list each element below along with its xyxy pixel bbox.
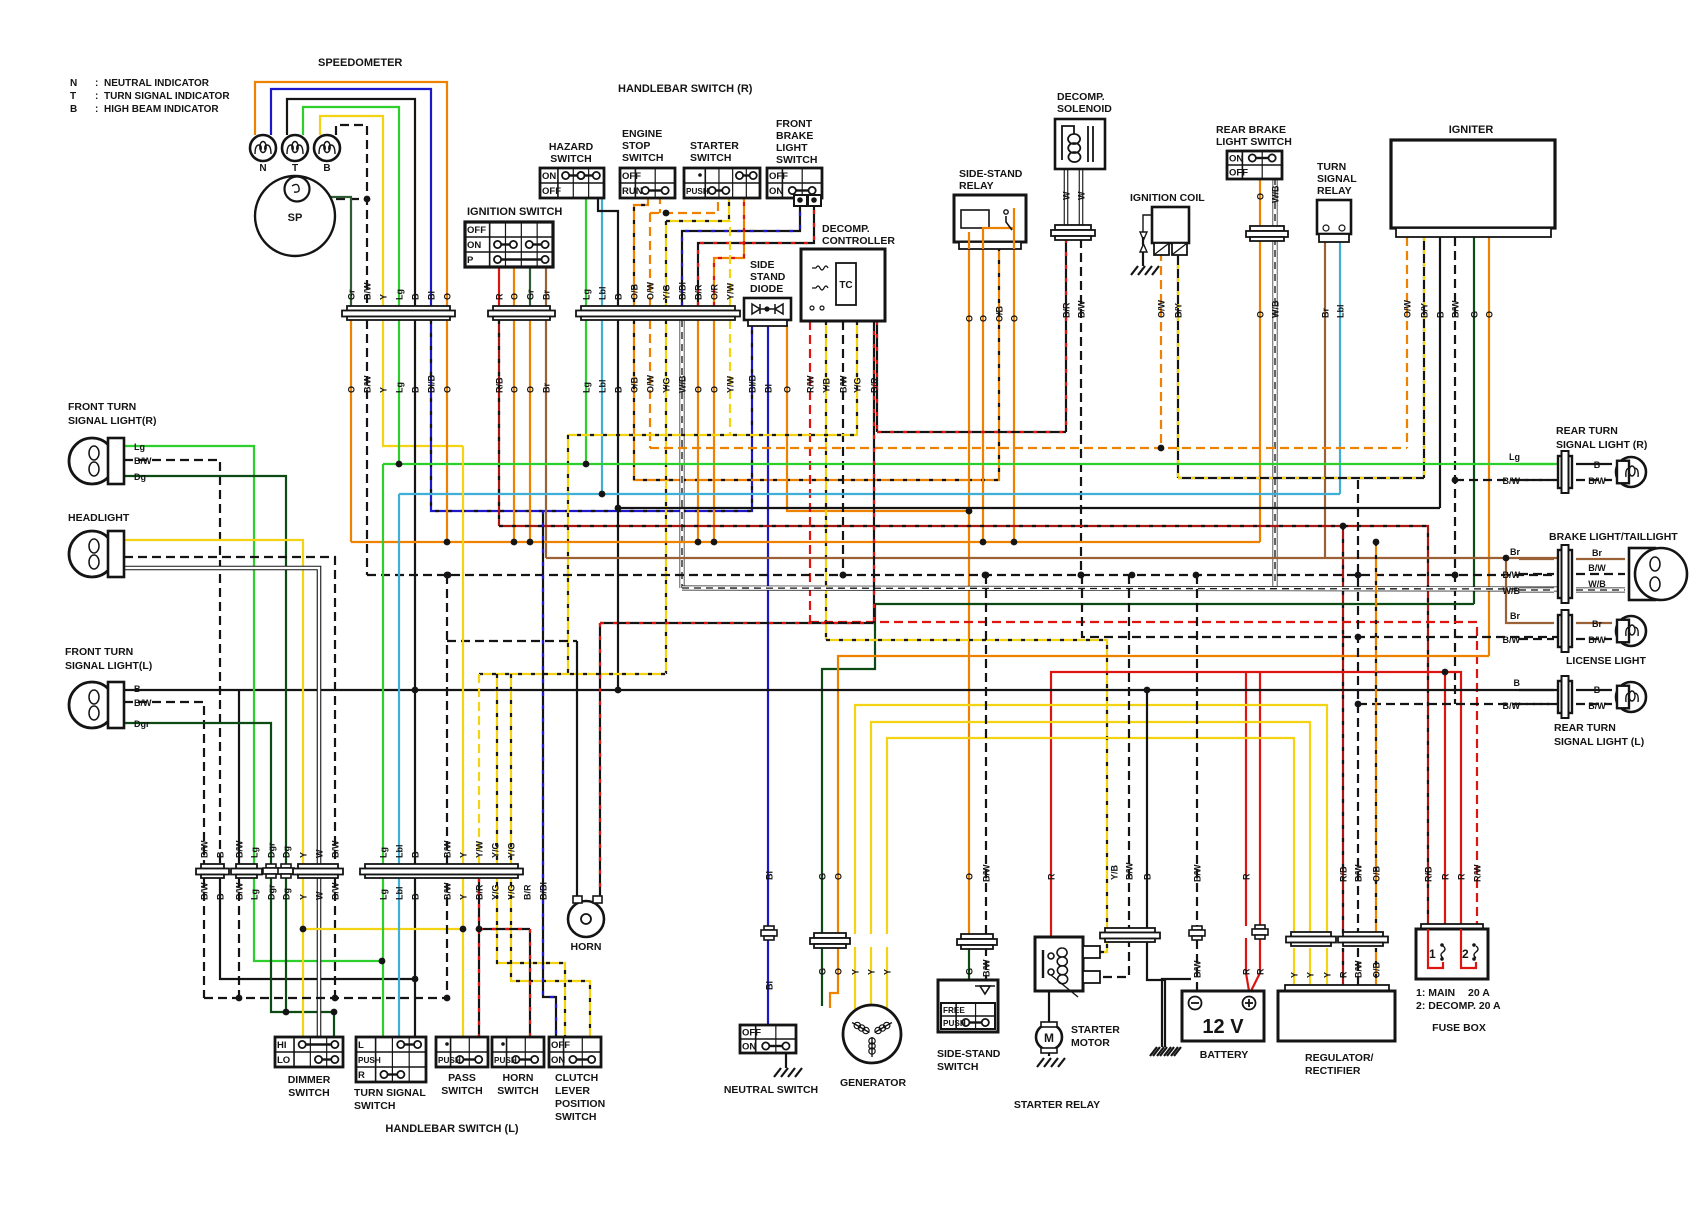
svg-text:ON: ON bbox=[467, 240, 481, 251]
svg-text:LIGHT: LIGHT bbox=[776, 142, 808, 154]
svg-text:HAZARD: HAZARD bbox=[549, 141, 594, 153]
svg-text:B: B bbox=[614, 293, 624, 300]
svg-text:B/W: B/W bbox=[1588, 476, 1606, 486]
svg-text:B/R: B/R bbox=[475, 884, 485, 900]
svg-text:B: B bbox=[1436, 311, 1446, 318]
svg-text:Lg: Lg bbox=[582, 289, 592, 300]
svg-text:O: O bbox=[965, 873, 975, 880]
svg-text:LICENSE LIGHT: LICENSE LIGHT bbox=[1566, 655, 1647, 667]
svg-text:Y/B: Y/B bbox=[822, 377, 832, 393]
svg-text:DIODE: DIODE bbox=[750, 283, 783, 295]
svg-text:SWITCH: SWITCH bbox=[622, 152, 663, 164]
svg-text:Y/G: Y/G bbox=[507, 842, 517, 858]
svg-text:HI: HI bbox=[277, 1040, 287, 1051]
svg-text:O: O bbox=[1256, 193, 1266, 200]
svg-text:FREE: FREE bbox=[943, 1006, 965, 1015]
svg-text:O: O bbox=[834, 873, 844, 880]
svg-text:Bl: Bl bbox=[765, 981, 775, 990]
svg-text:Y: Y bbox=[867, 969, 877, 975]
svg-text:Dg: Dg bbox=[282, 888, 292, 900]
svg-text:Y: Y bbox=[1323, 972, 1333, 978]
svg-text:B: B bbox=[323, 163, 330, 174]
svg-text:B: B bbox=[70, 104, 77, 115]
svg-text:LEVER: LEVER bbox=[555, 1085, 590, 1097]
svg-text:SIGNAL LIGHT (L): SIGNAL LIGHT (L) bbox=[1554, 736, 1644, 748]
svg-text:Lg: Lg bbox=[250, 889, 260, 900]
svg-text:B/Bl: B/Bl bbox=[678, 282, 688, 300]
svg-text:LIGHT SWITCH: LIGHT SWITCH bbox=[1216, 136, 1292, 148]
svg-text:Dg: Dg bbox=[282, 846, 292, 858]
svg-text:GENERATOR: GENERATOR bbox=[840, 1077, 907, 1089]
svg-text::: : bbox=[95, 91, 98, 102]
svg-text:Lg: Lg bbox=[1509, 452, 1520, 462]
svg-text:B/W: B/W bbox=[443, 882, 453, 900]
svg-text:Y/G: Y/G bbox=[853, 377, 863, 393]
svg-text:R/B: R/B bbox=[1424, 866, 1434, 882]
svg-text:B/W: B/W bbox=[839, 375, 849, 393]
svg-text:B/W: B/W bbox=[443, 840, 453, 858]
svg-text:O: O bbox=[979, 315, 989, 322]
svg-text:B/W: B/W bbox=[134, 698, 152, 708]
svg-text:R: R bbox=[358, 1070, 365, 1081]
svg-text:SWITCH: SWITCH bbox=[497, 1085, 538, 1097]
svg-text:W: W bbox=[1077, 191, 1087, 200]
svg-text:PASS: PASS bbox=[448, 1072, 476, 1084]
svg-text:RELAY: RELAY bbox=[1317, 185, 1352, 197]
svg-text:O/B: O/B bbox=[630, 283, 640, 300]
svg-text:FUSE BOX: FUSE BOX bbox=[1432, 1022, 1486, 1034]
svg-text:PUSH: PUSH bbox=[686, 187, 709, 196]
svg-text:O/W: O/W bbox=[1403, 299, 1413, 318]
svg-text:G: G bbox=[818, 873, 828, 880]
svg-text:ON: ON bbox=[551, 1055, 565, 1066]
svg-text:Y/W: Y/W bbox=[475, 840, 485, 858]
svg-text:DECOMP.: DECOMP. bbox=[1057, 91, 1105, 103]
svg-text:B/W: B/W bbox=[1125, 862, 1135, 880]
svg-text:SWITCH: SWITCH bbox=[288, 1087, 329, 1099]
svg-text:B/W: B/W bbox=[1354, 960, 1364, 978]
svg-text:M: M bbox=[1044, 1031, 1054, 1045]
svg-text:NEUTRAL INDICATOR: NEUTRAL INDICATOR bbox=[104, 78, 210, 89]
svg-text:R: R bbox=[1256, 968, 1266, 975]
svg-text:B/W: B/W bbox=[1354, 864, 1364, 882]
svg-text:P: P bbox=[467, 255, 474, 266]
svg-text:B/W: B/W bbox=[134, 456, 152, 466]
svg-text:Lg: Lg bbox=[250, 847, 260, 858]
svg-text:STOP: STOP bbox=[622, 140, 650, 152]
svg-text:R/W: R/W bbox=[806, 375, 816, 393]
svg-text:B/W: B/W bbox=[1503, 476, 1521, 486]
svg-text:O: O bbox=[1256, 311, 1266, 318]
svg-text:SIGNAL LIGHT(R): SIGNAL LIGHT(R) bbox=[68, 415, 156, 427]
svg-text:N: N bbox=[70, 78, 77, 89]
svg-text:TURN SIGNAL INDICATOR: TURN SIGNAL INDICATOR bbox=[104, 91, 230, 102]
svg-text:Y/G: Y/G bbox=[491, 884, 501, 900]
svg-text:IGNITER: IGNITER bbox=[1449, 124, 1494, 136]
svg-text:O: O bbox=[694, 386, 704, 393]
svg-text:B/W: B/W bbox=[235, 840, 245, 858]
svg-text:B/R: B/R bbox=[523, 884, 533, 900]
svg-text:SOLENOID: SOLENOID bbox=[1057, 103, 1112, 115]
svg-text:Br: Br bbox=[1321, 308, 1331, 318]
svg-text:Br: Br bbox=[1510, 611, 1520, 621]
svg-text:B: B bbox=[1594, 685, 1601, 695]
svg-text:B/Bl: B/Bl bbox=[539, 882, 549, 900]
svg-text:OFF: OFF bbox=[742, 1028, 761, 1039]
svg-text:HANDLEBAR SWITCH (L): HANDLEBAR SWITCH (L) bbox=[385, 1123, 519, 1135]
svg-text:1: MAIN: 1: MAIN bbox=[1416, 987, 1455, 999]
svg-text:2: 2 bbox=[1462, 947, 1469, 961]
svg-text:Y: Y bbox=[883, 969, 893, 975]
svg-text:SPEEDOMETER: SPEEDOMETER bbox=[318, 57, 402, 69]
svg-text:HEADLIGHT: HEADLIGHT bbox=[68, 512, 130, 524]
svg-text:R: R bbox=[1047, 873, 1057, 880]
svg-text:G: G bbox=[818, 968, 828, 975]
svg-text:G: G bbox=[1470, 311, 1480, 318]
svg-text:Gr: Gr bbox=[526, 289, 536, 300]
svg-text:B/W: B/W bbox=[331, 840, 341, 858]
svg-text:B/W: B/W bbox=[331, 882, 341, 900]
svg-text:Y: Y bbox=[299, 894, 309, 900]
svg-text:G: G bbox=[965, 968, 975, 975]
svg-text:SIGNAL LIGHT(L): SIGNAL LIGHT(L) bbox=[65, 660, 152, 672]
svg-text:MOTOR: MOTOR bbox=[1071, 1037, 1110, 1049]
svg-text:Y/G: Y/G bbox=[662, 284, 672, 300]
svg-text:Br: Br bbox=[1592, 548, 1602, 558]
svg-text:B: B bbox=[411, 293, 421, 300]
svg-text:OFF: OFF bbox=[542, 186, 561, 197]
svg-text:CLUTCH: CLUTCH bbox=[555, 1072, 598, 1084]
svg-text:O/W: O/W bbox=[646, 374, 656, 393]
svg-text:B/W: B/W bbox=[1193, 864, 1203, 882]
svg-text:O: O bbox=[834, 968, 844, 975]
svg-text:SP: SP bbox=[288, 212, 303, 224]
svg-text:O: O bbox=[347, 386, 357, 393]
svg-text:Y: Y bbox=[1290, 972, 1300, 978]
svg-text:W/B: W/B bbox=[1271, 185, 1281, 203]
svg-text:ON: ON bbox=[742, 1042, 756, 1053]
svg-text:R: R bbox=[1242, 873, 1252, 880]
svg-text:B/W: B/W bbox=[200, 882, 210, 900]
svg-text:HORN: HORN bbox=[571, 941, 602, 953]
svg-text:O: O bbox=[510, 293, 520, 300]
svg-text:Dg: Dg bbox=[134, 472, 146, 482]
svg-text:B/W: B/W bbox=[1503, 570, 1521, 580]
svg-text:TC: TC bbox=[839, 280, 852, 291]
svg-text:W/B: W/B bbox=[1588, 579, 1606, 589]
svg-text:R/B: R/B bbox=[1339, 866, 1349, 882]
svg-text:OFF: OFF bbox=[551, 1040, 570, 1051]
svg-text:SWITCH: SWITCH bbox=[937, 1061, 978, 1073]
svg-text:SIDE-STAND: SIDE-STAND bbox=[937, 1048, 1001, 1060]
svg-text:Lbl: Lbl bbox=[395, 845, 405, 859]
svg-text:O: O bbox=[443, 293, 453, 300]
svg-text:B/W: B/W bbox=[235, 882, 245, 900]
svg-text:REGULATOR/: REGULATOR/ bbox=[1305, 1052, 1374, 1064]
svg-text:B: B bbox=[411, 851, 421, 858]
svg-text:B/R: B/R bbox=[870, 377, 880, 393]
svg-text:B/R: B/R bbox=[694, 284, 704, 300]
svg-text:Lbl: Lbl bbox=[598, 287, 608, 301]
svg-text:O: O bbox=[443, 386, 453, 393]
svg-text:STARTER: STARTER bbox=[1071, 1024, 1120, 1036]
svg-text:T: T bbox=[292, 163, 298, 174]
svg-text:BATTERY: BATTERY bbox=[1200, 1049, 1248, 1061]
svg-text:R/B: R/B bbox=[495, 377, 505, 393]
svg-text:PUSH: PUSH bbox=[358, 1056, 381, 1065]
svg-text:ENGINE: ENGINE bbox=[622, 128, 662, 140]
svg-text:W: W bbox=[315, 891, 325, 900]
svg-text:RECTIFIER: RECTIFIER bbox=[1305, 1065, 1361, 1077]
svg-text:Y: Y bbox=[379, 294, 389, 300]
svg-text:Br: Br bbox=[1592, 619, 1602, 629]
svg-text:O/R: O/R bbox=[710, 283, 720, 300]
svg-text:RELAY: RELAY bbox=[959, 180, 994, 192]
svg-text:Br: Br bbox=[542, 383, 552, 393]
svg-text:Lg: Lg bbox=[395, 382, 405, 393]
svg-text:Bl/B: Bl/B bbox=[427, 374, 437, 393]
svg-text:B/W: B/W bbox=[1451, 300, 1461, 318]
svg-text:B/W: B/W bbox=[982, 864, 992, 882]
svg-text:12 V: 12 V bbox=[1202, 1016, 1244, 1038]
svg-text:W: W bbox=[1062, 191, 1072, 200]
svg-text:B: B bbox=[411, 386, 421, 393]
svg-text:B/R: B/R bbox=[1062, 302, 1072, 318]
svg-text:SWITCH: SWITCH bbox=[441, 1085, 482, 1097]
svg-text:R: R bbox=[1441, 873, 1451, 880]
svg-text:Y: Y bbox=[459, 894, 469, 900]
svg-text:Y/W: Y/W bbox=[726, 282, 736, 300]
svg-text:SWITCH: SWITCH bbox=[555, 1111, 596, 1123]
svg-text:O: O bbox=[510, 386, 520, 393]
svg-text:SIGNAL LIGHT (R): SIGNAL LIGHT (R) bbox=[1556, 439, 1647, 451]
svg-text:ON: ON bbox=[769, 186, 783, 197]
svg-text:Y/B: Y/B bbox=[1110, 864, 1120, 880]
svg-text:B/W: B/W bbox=[1588, 563, 1606, 573]
svg-text:BRAKE LIGHT/TAILLIGHT: BRAKE LIGHT/TAILLIGHT bbox=[1549, 531, 1678, 543]
svg-text:O/W: O/W bbox=[646, 281, 656, 300]
svg-text:STARTER: STARTER bbox=[690, 140, 739, 152]
svg-text:B/W: B/W bbox=[1588, 635, 1606, 645]
svg-text:R: R bbox=[1242, 968, 1252, 975]
svg-text:2: DECOMP. 20 A: 2: DECOMP. 20 A bbox=[1416, 1000, 1501, 1012]
svg-text:IGNITION COIL: IGNITION COIL bbox=[1130, 192, 1205, 204]
svg-text:Lbl: Lbl bbox=[1336, 305, 1346, 319]
svg-text:CONTROLLER: CONTROLLER bbox=[822, 235, 895, 247]
svg-text:DIMMER: DIMMER bbox=[288, 1074, 331, 1086]
svg-text:W/B: W/B bbox=[1503, 586, 1521, 596]
svg-text:Lbl: Lbl bbox=[598, 380, 608, 394]
svg-text:SWITCH: SWITCH bbox=[354, 1100, 395, 1112]
svg-text:Lg: Lg bbox=[379, 847, 389, 858]
svg-text:B/W: B/W bbox=[363, 375, 373, 393]
svg-text:Lg: Lg bbox=[395, 289, 405, 300]
svg-text:Lg: Lg bbox=[582, 382, 592, 393]
svg-text:Y/G: Y/G bbox=[662, 377, 672, 393]
svg-text:RUN: RUN bbox=[622, 186, 643, 197]
svg-text:Y: Y bbox=[851, 969, 861, 975]
svg-text:LO: LO bbox=[277, 1055, 290, 1066]
svg-text:O: O bbox=[783, 386, 793, 393]
svg-text:Bl: Bl bbox=[427, 291, 437, 300]
svg-text:O: O bbox=[1010, 315, 1020, 322]
svg-text:O/B: O/B bbox=[995, 305, 1005, 322]
svg-text:REAR BRAKE: REAR BRAKE bbox=[1216, 124, 1286, 136]
svg-text::: : bbox=[95, 78, 98, 89]
svg-text:B: B bbox=[1514, 678, 1521, 688]
svg-text:Bl/B: Bl/B bbox=[748, 374, 758, 393]
svg-text:Dgr: Dgr bbox=[267, 884, 277, 900]
svg-text:20 A: 20 A bbox=[1468, 987, 1490, 999]
svg-text:SWITCH: SWITCH bbox=[776, 154, 817, 166]
svg-text:Y: Y bbox=[379, 387, 389, 393]
svg-text:B: B bbox=[411, 893, 421, 900]
svg-text:TURN: TURN bbox=[1317, 161, 1346, 173]
svg-text:O/B: O/B bbox=[630, 376, 640, 393]
svg-text:B/W: B/W bbox=[982, 959, 992, 977]
svg-text:HANDLEBAR SWITCH (R): HANDLEBAR SWITCH (R) bbox=[618, 83, 753, 95]
svg-text:HIGH BEAM INDICATOR: HIGH BEAM INDICATOR bbox=[104, 104, 219, 115]
svg-text:Lg: Lg bbox=[379, 889, 389, 900]
svg-text:IGNITION SWITCH: IGNITION SWITCH bbox=[467, 206, 562, 218]
svg-text:B: B bbox=[216, 851, 226, 858]
svg-text:L: L bbox=[358, 1040, 364, 1051]
svg-text:OFF: OFF bbox=[622, 171, 641, 182]
svg-text:SWITCH: SWITCH bbox=[690, 152, 731, 164]
svg-text:W/B: W/B bbox=[1271, 300, 1281, 318]
svg-text:Y/G: Y/G bbox=[491, 842, 501, 858]
svg-text:Bl: Bl bbox=[765, 871, 775, 880]
svg-text:O: O bbox=[965, 315, 975, 322]
svg-text:SWITCH: SWITCH bbox=[550, 153, 591, 165]
svg-text:O: O bbox=[1485, 311, 1495, 318]
svg-text:B: B bbox=[1594, 460, 1601, 470]
svg-text::: : bbox=[95, 104, 98, 115]
svg-text:Y: Y bbox=[1306, 972, 1316, 978]
svg-text:SIDE-STAND: SIDE-STAND bbox=[959, 168, 1023, 180]
svg-text:Y: Y bbox=[299, 852, 309, 858]
svg-text:B/Y: B/Y bbox=[1174, 303, 1184, 318]
svg-text:FRONT TURN: FRONT TURN bbox=[65, 646, 133, 658]
svg-text:STARTER RELAY: STARTER RELAY bbox=[1014, 1099, 1100, 1111]
svg-text:REAR TURN: REAR TURN bbox=[1556, 425, 1618, 437]
svg-text:R: R bbox=[1457, 873, 1467, 880]
svg-text:B/W: B/W bbox=[363, 282, 373, 300]
svg-text:O: O bbox=[526, 386, 536, 393]
svg-text:BRAKE: BRAKE bbox=[776, 130, 813, 142]
svg-text:OFF: OFF bbox=[769, 171, 788, 182]
svg-text:SIGNAL: SIGNAL bbox=[1317, 173, 1357, 185]
svg-text:Dgr: Dgr bbox=[134, 719, 150, 729]
svg-text:NEUTRAL SWITCH: NEUTRAL SWITCH bbox=[724, 1084, 818, 1096]
svg-text:STAND: STAND bbox=[750, 271, 786, 283]
svg-text:W/B: W/B bbox=[678, 375, 688, 393]
svg-text:B/W: B/W bbox=[1588, 701, 1606, 711]
svg-text:W: W bbox=[315, 849, 325, 858]
svg-text:B/W: B/W bbox=[1193, 960, 1203, 978]
svg-text:ON: ON bbox=[1229, 154, 1243, 165]
svg-text:R: R bbox=[495, 293, 505, 300]
svg-text:Gr: Gr bbox=[347, 289, 357, 300]
svg-text:OFF: OFF bbox=[467, 225, 486, 236]
svg-text:Br: Br bbox=[1510, 547, 1520, 557]
svg-text:B: B bbox=[1143, 873, 1153, 880]
svg-text:ON: ON bbox=[542, 171, 556, 182]
svg-text:B: B bbox=[134, 684, 141, 694]
svg-text:DECOMP.: DECOMP. bbox=[822, 223, 870, 235]
svg-text:Y/G: Y/G bbox=[507, 884, 517, 900]
svg-text:OFF: OFF bbox=[1229, 168, 1248, 179]
svg-text:R: R bbox=[1339, 971, 1349, 978]
svg-text:POSITION: POSITION bbox=[555, 1098, 605, 1110]
svg-text:B/W: B/W bbox=[200, 840, 210, 858]
svg-text:REAR TURN: REAR TURN bbox=[1554, 722, 1616, 734]
svg-text:O: O bbox=[710, 386, 720, 393]
svg-text:HORN: HORN bbox=[503, 1072, 534, 1084]
svg-text:FRONT TURN: FRONT TURN bbox=[68, 401, 136, 413]
svg-text:N: N bbox=[259, 163, 266, 174]
svg-text:Lg: Lg bbox=[134, 442, 145, 452]
svg-text:B: B bbox=[614, 386, 624, 393]
svg-text:T: T bbox=[70, 91, 76, 102]
svg-text:Lbl: Lbl bbox=[395, 887, 405, 901]
svg-text:Y/W: Y/W bbox=[726, 375, 736, 393]
svg-text:O/B: O/B bbox=[1372, 961, 1382, 978]
svg-text:Y: Y bbox=[459, 852, 469, 858]
svg-text:Dgr: Dgr bbox=[267, 842, 277, 858]
svg-text:R/W: R/W bbox=[1473, 864, 1483, 882]
svg-text:B/Y: B/Y bbox=[1420, 303, 1430, 318]
svg-text:FRONT: FRONT bbox=[776, 118, 813, 130]
svg-text:Br: Br bbox=[542, 290, 552, 300]
svg-text:TURN SIGNAL: TURN SIGNAL bbox=[354, 1087, 426, 1099]
svg-text:B/W: B/W bbox=[1503, 701, 1521, 711]
svg-text:1: 1 bbox=[1429, 947, 1436, 961]
svg-text:B/W: B/W bbox=[1503, 635, 1521, 645]
svg-text:O/B: O/B bbox=[1372, 865, 1382, 882]
svg-text:B/W: B/W bbox=[1077, 300, 1087, 318]
svg-text:SIDE: SIDE bbox=[750, 259, 775, 271]
svg-text:Bl: Bl bbox=[764, 384, 774, 393]
svg-text:O/W: O/W bbox=[1157, 299, 1167, 318]
svg-text:B: B bbox=[216, 893, 226, 900]
